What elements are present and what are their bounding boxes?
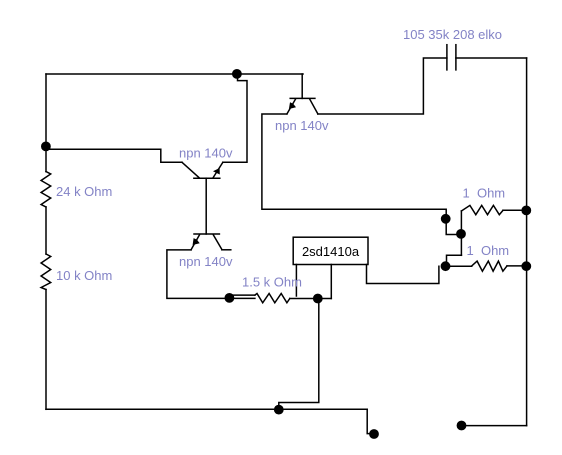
capacitor C1 105 35k 208 elko bbox=[447, 45, 456, 70]
wire Q3 collector stub bbox=[222, 249, 231, 251]
wire top rail y=74 bbox=[46, 73, 303, 75]
svg-text:1 Ohm: 1 Ohm bbox=[463, 186, 506, 201]
wire Q2 collector to capacitor bbox=[318, 58, 447, 114]
wire Q1 emitter up to top rail node D2 bbox=[223, 74, 247, 162]
wire Q2 emitter to 1-Ohm resistors net bbox=[262, 114, 462, 235]
node junction dot D2 on top rail bbox=[233, 70, 241, 78]
terminal dot D11 bbox=[370, 430, 378, 438]
transistor Q1 npn 140v (middle, inverted) bbox=[182, 162, 223, 178]
wire from node D1 to Q1 base-left bbox=[46, 149, 182, 162]
wire double lead into R5 bbox=[231, 295, 255, 298]
terminal dot D12 bbox=[457, 421, 465, 429]
resistor R5 1.5 k Ohm bbox=[255, 294, 290, 303]
wire R5 to IC pins bbox=[290, 298, 332, 300]
wire right rail bbox=[526, 58, 528, 426]
svg-text:1.5 k Ohm: 1.5 k Ohm bbox=[242, 275, 302, 290]
wire Q3 emitter down to 1.5k resistor bbox=[167, 250, 232, 299]
svg-text:npn 140v: npn 140v bbox=[179, 254, 233, 269]
node junction dot D1 on left rail bbox=[42, 142, 50, 150]
resistor R3 1 Ohm (upper) bbox=[461, 205, 526, 255]
svg-text:24 k Ohm: 24 k Ohm bbox=[56, 184, 112, 199]
node junction dot D7 bbox=[441, 262, 449, 270]
wire Q1 base to Q3 base bbox=[205, 178, 207, 234]
resistor R4 1 Ohm (lower) bbox=[446, 261, 527, 271]
resistor R1 24k Ohm bbox=[41, 172, 51, 207]
wire right rail to bottom terminal bbox=[463, 425, 527, 427]
node junction dot D8 bbox=[522, 206, 530, 214]
svg-text:10 k Ohm: 10 k Ohm bbox=[56, 268, 112, 283]
wire left rail upper segment bbox=[45, 74, 47, 172]
wire left rail middle segment bbox=[45, 207, 47, 254]
node junction dot D6 bbox=[457, 230, 465, 238]
wire node D4 down to bottom rail bbox=[279, 299, 319, 410]
svg-text:npn 140v: npn 140v bbox=[275, 118, 329, 133]
svg-text:npn 140v: npn 140v bbox=[179, 146, 233, 161]
node junction dot D10 on bottom rail bbox=[275, 405, 283, 413]
pin 3 of 2sd1410a (right) wire to node D7 bbox=[367, 265, 439, 284]
svg-text:105 35k 208 elko: 105 35k 208 elko bbox=[403, 27, 502, 42]
node junction dot D9 bbox=[522, 262, 530, 270]
wire step from R3 lead down to node D7 bbox=[447, 255, 462, 266]
transistor Q2 npn 140v (top) bbox=[287, 74, 318, 114]
svg-text:2sd1410a: 2sd1410a bbox=[302, 244, 360, 259]
wire bottom terminal hook bbox=[367, 409, 372, 433]
transistor Q3 npn 140v (lower) bbox=[191, 234, 222, 250]
svg-text:1 Ohm: 1 Ohm bbox=[467, 243, 510, 258]
wire capacitor to right rail bbox=[456, 57, 527, 59]
node junction dot D4 bbox=[314, 294, 322, 302]
pin 2 of 2sd1410a (middle) bbox=[330, 265, 332, 299]
IC box 2sd1410a bbox=[293, 237, 368, 264]
wire left rail lower segment bbox=[45, 290, 47, 410]
node junction dot D5 bbox=[442, 215, 450, 223]
resistor R2 10k Ohm bbox=[41, 254, 51, 290]
pin 1 of 2sd1410a (left) bbox=[295, 265, 297, 297]
wire bottom rail bbox=[46, 408, 367, 410]
node junction dot D3 bbox=[225, 294, 233, 302]
